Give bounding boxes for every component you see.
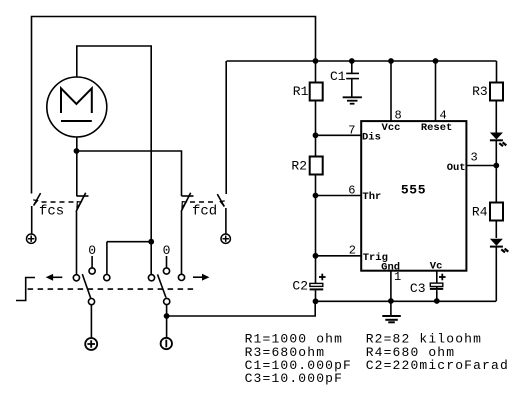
svg-text:R3: R3 [472,84,488,99]
svg-text:Vc: Vc [430,261,443,273]
svg-text:555: 555 [401,183,426,198]
svg-text:0: 0 [88,243,96,258]
svg-text:C1: C1 [330,69,346,84]
svg-text:fcs: fcs [39,203,64,219]
svg-text:Gnd: Gnd [381,261,400,273]
svg-text:Dis: Dis [362,132,381,144]
svg-text:R4: R4 [472,204,488,219]
svg-text:4: 4 [440,109,447,123]
svg-text:R2: R2 [291,159,307,174]
svg-text:7: 7 [348,124,355,138]
svg-text:3: 3 [471,151,478,165]
svg-text:Vcc: Vcc [382,122,401,134]
svg-text:6: 6 [348,184,355,198]
svg-text:Reset: Reset [421,122,453,134]
svg-text:C2=220microFarad: C2=220microFarad [366,358,509,373]
svg-text:C3=10.000pF: C3=10.000pF [245,371,343,386]
svg-text:8: 8 [395,109,402,123]
svg-text:fcd: fcd [192,203,217,219]
svg-text:C3: C3 [410,281,426,296]
svg-text:C2: C2 [292,279,308,294]
svg-text:2: 2 [349,244,356,258]
svg-text:R1: R1 [293,84,309,99]
svg-text:0: 0 [163,243,171,258]
svg-text:Thr: Thr [362,191,381,203]
svg-text:Out: Out [447,162,466,174]
